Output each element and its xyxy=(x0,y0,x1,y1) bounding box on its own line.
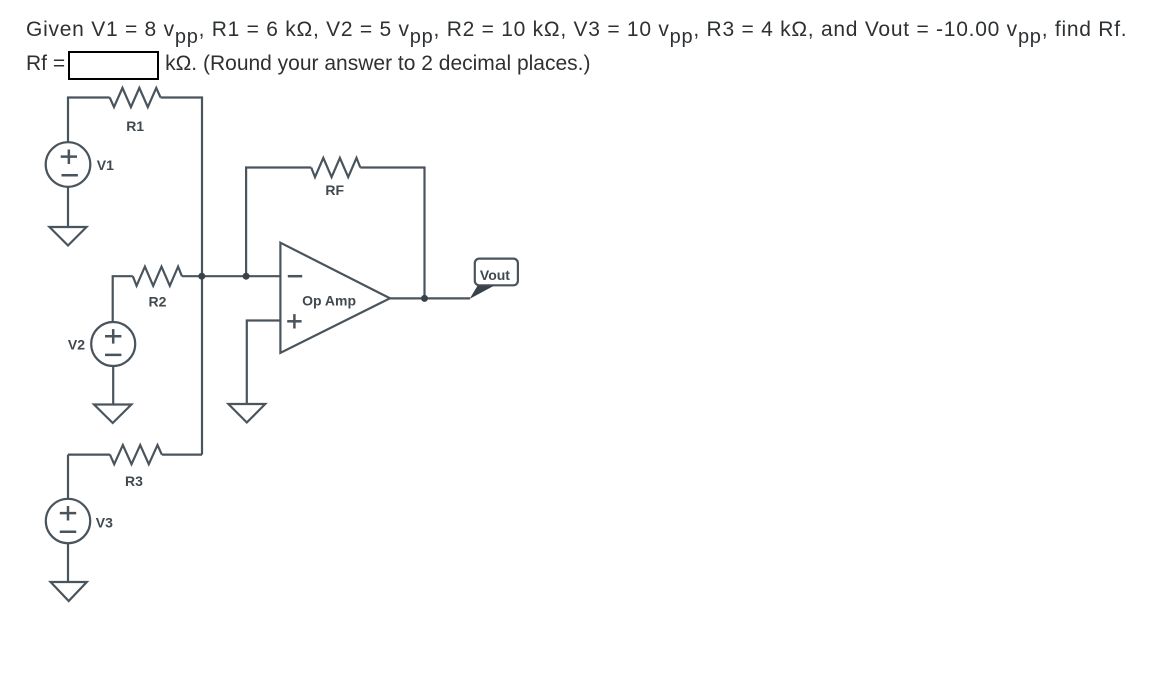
svg-text:Vout: Vout xyxy=(480,267,510,283)
svg-text:V3: V3 xyxy=(96,515,113,531)
svg-text:R1: R1 xyxy=(126,118,144,134)
svg-text:R3: R3 xyxy=(125,473,143,489)
svg-text:V2: V2 xyxy=(68,337,85,353)
svg-text:R2: R2 xyxy=(149,294,167,310)
svg-text:V1: V1 xyxy=(97,157,114,173)
svg-text:Op Amp: Op Amp xyxy=(302,293,356,309)
svg-text:RF: RF xyxy=(325,182,344,198)
